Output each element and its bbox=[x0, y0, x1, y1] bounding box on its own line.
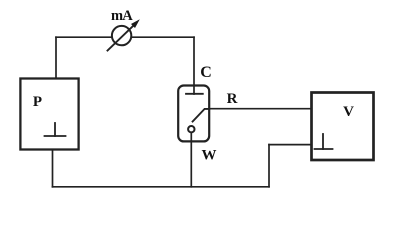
svg-text:mA: mA bbox=[111, 8, 133, 24]
wire top horizontal right bbox=[131, 36, 194, 38]
terminal C bar bbox=[186, 93, 203, 95]
wire W vertical bbox=[190, 132, 192, 186]
wiper contact circle bbox=[188, 126, 194, 132]
svg-text:P: P bbox=[33, 94, 42, 110]
wire top-left vertical bbox=[55, 37, 57, 78]
wire right vertical to C bbox=[193, 37, 195, 94]
svg-text:W: W bbox=[202, 148, 217, 164]
wire bottom horizontal bbox=[53, 186, 270, 188]
ammeter mA bbox=[108, 8, 140, 51]
ground terminal in V bbox=[315, 134, 333, 149]
wire R bbox=[209, 108, 311, 110]
wire lower right horizontal to V bbox=[269, 144, 312, 146]
wire top horizontal left bbox=[56, 36, 112, 38]
svg-text:C: C bbox=[200, 64, 212, 81]
ground terminal in P bbox=[45, 123, 66, 136]
wire step vertical bbox=[268, 145, 270, 187]
potentiometer (rheostat) body bbox=[178, 86, 209, 142]
power supply P box bbox=[20, 79, 78, 150]
wiper arm bbox=[193, 109, 210, 122]
svg-text:R: R bbox=[227, 91, 238, 107]
svg-text:V: V bbox=[343, 104, 354, 120]
wire P bottom vertical bbox=[52, 150, 54, 187]
voltmeter V box bbox=[312, 93, 374, 161]
